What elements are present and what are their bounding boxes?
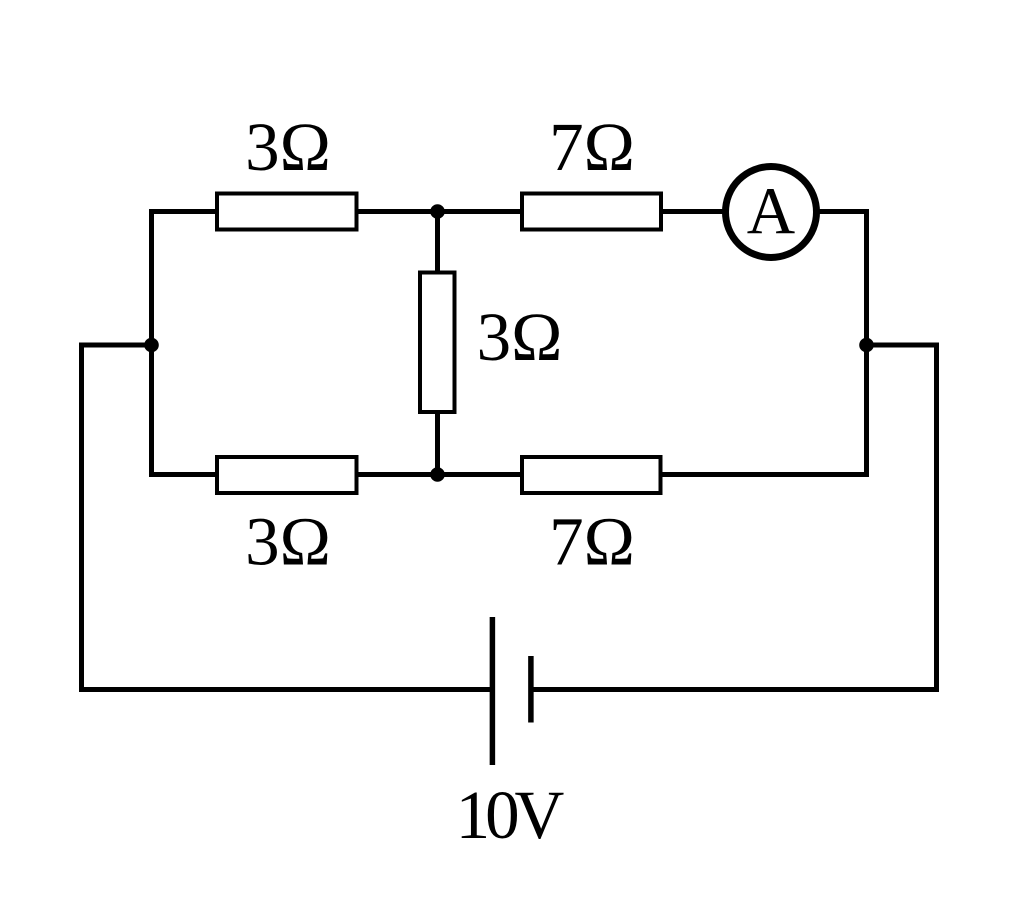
resistor 3Ω middle vertical	[420, 273, 455, 413]
node: top middle junction	[430, 204, 445, 219]
svg-text:10V: 10V	[456, 777, 565, 853]
wire: middle vertical branch	[435, 212, 440, 475]
ammeter U1 circle	[726, 167, 817, 258]
wire: left half of inner loop (top-left and bottom-left corners)	[152, 212, 438, 475]
battery negative plate (short)	[528, 656, 534, 723]
resistor 3Ω bottom-left	[217, 457, 357, 493]
resistor 7Ω bottom-right	[522, 457, 661, 493]
svg-text:7Ω: 7Ω	[549, 504, 635, 580]
wire: outer loop left (node A to battery positive)	[82, 345, 491, 690]
wire: right half of inner loop (top-right and bottom-right corners)	[438, 212, 867, 475]
svg-text:3Ω: 3Ω	[245, 109, 331, 185]
resistor 3Ω top-left	[217, 194, 357, 230]
node: right junction B	[859, 338, 874, 353]
svg-text:7Ω: 7Ω	[549, 109, 635, 185]
wire: outer loop right (battery negative to node B)	[534, 345, 937, 690]
svg-text:3Ω: 3Ω	[477, 299, 563, 375]
svg-text:A: A	[747, 174, 795, 248]
node: left junction A	[144, 338, 159, 353]
battery positive plate (long)	[490, 617, 496, 765]
node: bottom middle junction	[430, 467, 445, 482]
svg-text:3Ω: 3Ω	[245, 504, 331, 580]
resistor 7Ω top-right	[522, 194, 661, 230]
